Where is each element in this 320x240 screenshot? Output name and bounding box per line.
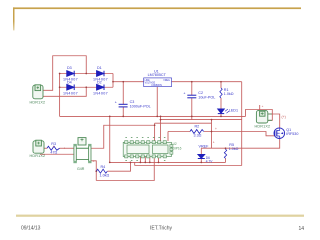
wire J3 pin2 to opto <box>40 153 74 155</box>
svg-text:R4: R4 <box>101 165 106 169</box>
zener diode D6 <box>198 155 205 159</box>
resistor R3 <box>47 146 60 150</box>
wire opto pin2 down <box>91 161 96 181</box>
junction node (59.6,87.25) <box>59 86 61 88</box>
svg-text:1.0kΩ: 1.0kΩ <box>100 173 110 177</box>
svg-text:+: + <box>93 160 95 164</box>
wire regulator output rail <box>172 81 242 83</box>
wire C3 bottom lead <box>122 107 124 116</box>
wire J3 pin1 to R3 <box>44 147 47 149</box>
diode D3 <box>67 71 74 77</box>
wire IC top riser B <box>160 116 162 141</box>
junction node (59.6,73.5) <box>59 73 61 75</box>
wire R4 right lead <box>108 162 131 171</box>
connector J1 <box>33 85 43 99</box>
wire line A <box>161 119 242 121</box>
op-amp U1 regulator box <box>144 78 172 87</box>
svg-text:D3: D3 <box>67 66 72 70</box>
svg-text:3.3Ω: 3.3Ω <box>194 134 202 138</box>
wire bridge right vertical <box>112 74 114 88</box>
diode D4 <box>67 84 74 90</box>
svg-text:+: + <box>183 91 185 95</box>
diode D2 <box>97 84 104 90</box>
wire R5 leads <box>225 148 227 162</box>
svg-text:DIP16: DIP16 <box>173 146 182 150</box>
slide top gold rule <box>13 7 301 9</box>
wire line B <box>155 122 212 124</box>
wire Q1 source down and left <box>201 138 279 148</box>
svg-text:VREF: VREF <box>199 144 210 148</box>
svg-text:09/14/13: 09/14/13 <box>21 225 41 231</box>
junction node (160.5,116.4) <box>160 116 162 118</box>
resistor R2 <box>190 130 204 134</box>
wire opto to IC line <box>91 125 155 148</box>
wire bridge out to regulator input <box>113 81 144 83</box>
diode D1 <box>97 71 104 77</box>
svg-text:1N4007: 1N4007 <box>63 92 78 96</box>
svg-text:1N4007: 1N4007 <box>93 92 108 96</box>
resistor R5 <box>224 149 226 158</box>
junction node (191.8,81.7) <box>191 81 193 83</box>
wire R1 top lead <box>220 82 222 88</box>
svg-text:1.0kΩ: 1.0kΩ <box>224 92 234 96</box>
wire lower ground rail <box>110 161 226 163</box>
slide bottom gold rule <box>16 215 304 217</box>
svg-text:4.7V: 4.7V <box>206 160 213 164</box>
wire C3 top lead <box>122 82 124 104</box>
junction node (109.75,162.4) <box>109 162 111 164</box>
junction node (145.3,162.4) <box>144 162 146 164</box>
junction node (149.8,162.4) <box>149 162 151 164</box>
svg-text:D1: D1 <box>97 66 102 70</box>
wire ground rail <box>60 115 246 117</box>
junction node (211.5,131.5) <box>211 131 213 133</box>
wire C2 top lead <box>191 82 193 95</box>
svg-text:IRF530: IRF530 <box>286 132 298 136</box>
connector J3 <box>33 140 44 153</box>
wire ground drop left <box>109 116 111 162</box>
svg-text:(+): (+) <box>282 115 286 119</box>
junction node (130.5,162.4) <box>130 162 132 164</box>
svg-text:1000uF-POL: 1000uF-POL <box>130 104 151 108</box>
connector J2 <box>256 111 272 123</box>
wire IC bottom stubs <box>140 157 158 163</box>
wire IC top riser A <box>154 123 156 141</box>
wire regulator common stub <box>156 87 158 117</box>
junction node (221,116.4) <box>220 116 222 118</box>
resistor R1 <box>220 88 222 98</box>
junction node (158.5,162.4) <box>158 162 160 164</box>
junction node (86.25,87.25) <box>85 86 87 88</box>
wire bridge bottom row <box>60 86 113 88</box>
LED1 <box>218 109 229 114</box>
svg-text:14: 14 <box>299 226 305 232</box>
svg-text:+: + <box>64 146 66 150</box>
wire mid vertical to vref node <box>211 120 213 149</box>
wire R2 corner <box>168 132 190 142</box>
optocoupler U3 <box>73 138 91 164</box>
junction node (211.5,119.6) <box>211 119 213 121</box>
wire rail tie stub <box>134 162 136 165</box>
svg-text:G4R: G4R <box>77 167 85 171</box>
junction node (157.25,116.4) <box>156 116 158 118</box>
wire R3 to opto <box>60 147 74 149</box>
slide left gold tick <box>13 7 15 30</box>
svg-text:+: + <box>213 141 215 145</box>
wire LED1 cathode to ground <box>220 114 222 117</box>
svg-text:D4: D4 <box>67 81 72 85</box>
svg-text:R2: R2 <box>195 125 200 129</box>
wire bridge left vertical to ground rail <box>59 74 61 117</box>
wire J2 pin1 to drain <box>267 114 280 128</box>
svg-text:HDR1X2: HDR1X2 <box>30 154 46 158</box>
wire zener bottom lead <box>200 159 202 163</box>
wire J1 pin2 to bridge bottom mid <box>42 87 86 96</box>
junction node (191.8,116.4) <box>191 116 193 118</box>
wire bottom loop <box>96 158 154 180</box>
svg-text:LED1: LED1 <box>229 108 238 112</box>
wire R1 to LED1 <box>220 98 222 109</box>
junction node (154.6,125.25) <box>154 124 156 126</box>
wire lower right rail <box>135 165 242 167</box>
wire J2 feed box <box>246 110 273 121</box>
svg-text:COMMON: COMMON <box>151 85 162 87</box>
svg-text:D2: D2 <box>97 81 102 85</box>
IC U2 <box>123 137 173 160</box>
svg-text:+: + <box>115 100 117 104</box>
junction node (140.4,162.4) <box>140 162 142 164</box>
junction node (160.5,119.6) <box>160 119 162 121</box>
junction node (123.25,81.7) <box>122 81 124 83</box>
wire zener top lead <box>200 148 202 154</box>
junction node (86.25,73.5) <box>85 73 87 75</box>
wire J2 top stub <box>259 105 261 110</box>
capacitor C2 <box>187 95 196 98</box>
wire V+ long drop right <box>241 82 243 166</box>
junction node (225.5,148.2) <box>225 147 227 149</box>
svg-text:LM7805CT: LM7805CT <box>148 73 167 77</box>
svg-text:IET.Trichy: IET.Trichy <box>150 226 173 232</box>
svg-text:1.0kΩ: 1.0kΩ <box>229 147 239 151</box>
junction node (201.3,162.4) <box>200 162 202 164</box>
svg-text:HDR1X2: HDR1X2 <box>255 124 271 128</box>
svg-text:+: + <box>215 127 217 131</box>
svg-text:VREG: VREG <box>163 80 170 82</box>
junction node (123.25,116.4) <box>122 116 124 118</box>
junction node (113,81.7) <box>112 81 114 83</box>
resistor R4 <box>97 169 108 173</box>
wire R2 to gate <box>204 132 275 136</box>
capacitor C3 <box>119 104 128 107</box>
svg-text:10uF-POL: 10uF-POL <box>198 95 215 99</box>
svg-text:47Ω: 47Ω <box>50 150 57 154</box>
wire J1 pin1 to top rail <box>42 56 86 91</box>
svg-text:+: + <box>262 104 264 108</box>
svg-text:HDR1X2: HDR1X2 <box>30 101 46 105</box>
wire C2 bottom lead <box>191 98 193 119</box>
junction node (221,81.7) <box>220 81 222 83</box>
svg-text:VOLTAGE: VOLTAGE <box>145 81 156 84</box>
wire bridge top row <box>60 73 113 75</box>
svg-text:+: + <box>53 145 55 149</box>
transistor Q1 <box>274 128 285 139</box>
junction node (96.25,171.2) <box>95 170 97 172</box>
junction node (109.75,116.4) <box>109 116 111 118</box>
